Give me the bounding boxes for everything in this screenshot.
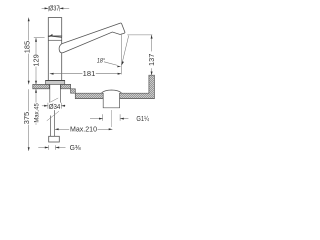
svg-text:Ø37: Ø37 <box>49 6 60 13</box>
svg-text:137: 137 <box>149 53 156 66</box>
svg-text:Ø34: Ø34 <box>49 102 61 111</box>
svg-text:375: 375 <box>24 112 31 125</box>
svg-text:G1¼: G1¼ <box>136 114 149 123</box>
svg-text:G⅜: G⅜ <box>70 143 82 152</box>
svg-text:Max.210: Max.210 <box>70 124 97 133</box>
svg-text:181: 181 <box>83 71 96 78</box>
svg-text:18°: 18° <box>97 56 106 64</box>
svg-text:Max.45: Max.45 <box>34 103 41 123</box>
svg-text:129: 129 <box>34 54 41 67</box>
svg-text:185: 185 <box>24 41 31 54</box>
